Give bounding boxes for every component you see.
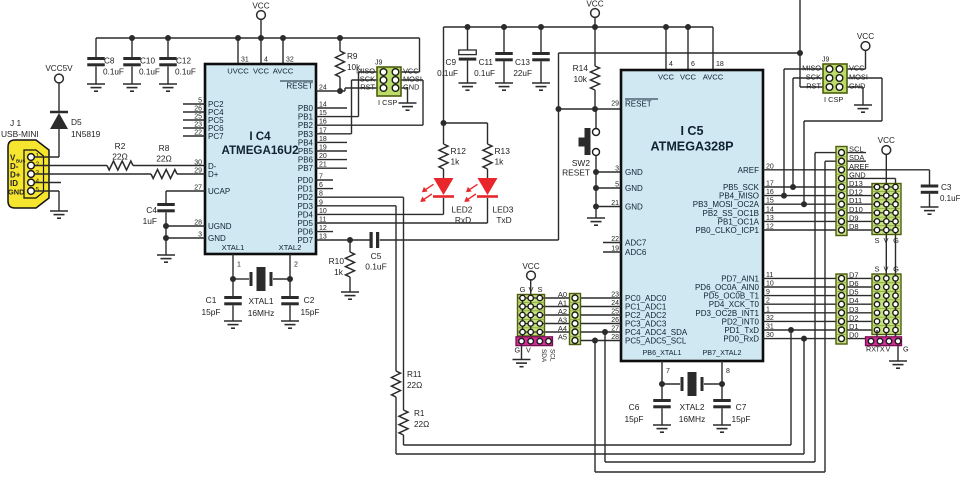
svg-text:3: 3 xyxy=(36,170,40,177)
svg-text:C10: C10 xyxy=(140,57,155,66)
svg-text:S: S xyxy=(874,265,879,274)
svg-text:C11: C11 xyxy=(479,58,494,67)
svg-text:G: G xyxy=(903,345,909,354)
svg-text:RxD: RxD xyxy=(455,215,471,225)
svg-text:R9: R9 xyxy=(347,52,358,61)
svg-text:2: 2 xyxy=(294,262,298,269)
svg-text:16MHz: 16MHz xyxy=(248,308,275,318)
svg-text:R13: R13 xyxy=(495,146,511,156)
svg-text:0.1uF: 0.1uF xyxy=(139,68,160,77)
svg-text:16MHz: 16MHz xyxy=(679,414,706,424)
svg-text:XTAL1: XTAL1 xyxy=(222,243,245,252)
svg-text:RESET: RESET xyxy=(562,168,590,178)
svg-text:R11: R11 xyxy=(407,370,422,379)
svg-text:GND: GND xyxy=(208,234,226,243)
svg-text:PB6_XTAL1: PB6_XTAL1 xyxy=(642,348,681,357)
svg-text:15pF: 15pF xyxy=(731,414,750,424)
svg-text:4: 4 xyxy=(669,61,673,68)
svg-text:V: V xyxy=(883,265,888,274)
svg-text:31: 31 xyxy=(241,57,249,64)
svg-text:15pF: 15pF xyxy=(201,307,220,317)
svg-text:A5: A5 xyxy=(558,333,567,342)
svg-text:1uF: 1uF xyxy=(143,216,157,226)
svg-text:D0: D0 xyxy=(849,331,859,340)
svg-text:S: S xyxy=(537,285,542,294)
svg-text:VCC: VCC xyxy=(658,73,675,82)
svg-text:VCC5V: VCC5V xyxy=(45,64,73,73)
svg-text:4: 4 xyxy=(264,57,268,64)
svg-text:J9: J9 xyxy=(822,57,830,64)
svg-text:C13: C13 xyxy=(515,58,530,67)
svg-text:0.1uF: 0.1uF xyxy=(940,194,960,203)
svg-text:V: V xyxy=(526,346,531,355)
svg-text:SDA: SDA xyxy=(540,349,547,363)
svg-text:RST: RST xyxy=(360,83,375,92)
svg-text:0.1uF: 0.1uF xyxy=(474,69,495,78)
svg-text:ATMEGA328P: ATMEGA328P xyxy=(650,140,733,154)
svg-text:RESET: RESET xyxy=(625,100,652,109)
svg-text:G: G xyxy=(515,346,521,355)
svg-text:VCC: VCC xyxy=(878,136,895,145)
svg-text:25: 25 xyxy=(194,114,202,121)
svg-text:22Ω: 22Ω xyxy=(407,381,422,390)
svg-text:3: 3 xyxy=(615,166,619,173)
svg-text:C4: C4 xyxy=(146,205,157,215)
svg-text:LED3: LED3 xyxy=(493,205,514,215)
svg-text:22Ω: 22Ω xyxy=(414,420,429,429)
svg-text:R1: R1 xyxy=(414,409,425,418)
svg-text:R14: R14 xyxy=(573,63,589,73)
svg-text:C7: C7 xyxy=(736,402,747,412)
svg-text:C5: C5 xyxy=(371,251,382,261)
svg-text:C6: C6 xyxy=(629,402,640,412)
svg-text:I C4: I C4 xyxy=(249,130,271,143)
svg-text:S: S xyxy=(874,236,879,245)
svg-text:ATMEGA16U2: ATMEGA16U2 xyxy=(221,144,298,157)
svg-text:1: 1 xyxy=(36,153,40,160)
svg-text:UCAP: UCAP xyxy=(208,187,230,196)
svg-text:VCC: VCC xyxy=(253,67,270,76)
svg-text:1N5819: 1N5819 xyxy=(71,129,101,139)
svg-text:VCC: VCC xyxy=(586,0,603,9)
svg-text:C12: C12 xyxy=(176,57,191,66)
svg-text:MISO: MISO xyxy=(802,64,821,73)
svg-text:6: 6 xyxy=(691,61,695,68)
svg-text:VCC: VCC xyxy=(252,2,269,11)
svg-text:0.1uF: 0.1uF xyxy=(175,68,196,77)
svg-text:22: 22 xyxy=(611,236,619,243)
svg-text:PB0_CLKO_ICP1: PB0_CLKO_ICP1 xyxy=(695,226,759,235)
svg-text:VCC: VCC xyxy=(857,32,874,41)
svg-text:AREF: AREF xyxy=(738,166,759,175)
svg-text:G: G xyxy=(520,285,526,294)
svg-text:5: 5 xyxy=(36,187,40,194)
svg-text:SCK: SCK xyxy=(806,73,821,82)
svg-text:J9: J9 xyxy=(375,60,383,67)
svg-text:ADC6: ADC6 xyxy=(625,248,647,257)
svg-text:GND: GND xyxy=(625,168,643,177)
svg-text:4: 4 xyxy=(36,178,40,185)
svg-text:PD0_RxD: PD0_RxD xyxy=(723,335,759,344)
svg-text:LED2: LED2 xyxy=(452,205,473,215)
svg-text:UVCC: UVCC xyxy=(227,67,249,76)
svg-text:32: 32 xyxy=(286,57,294,64)
svg-text:22Ω: 22Ω xyxy=(156,154,172,164)
svg-text:C8: C8 xyxy=(104,57,115,66)
svg-text:V: V xyxy=(886,345,891,354)
svg-text:15pF: 15pF xyxy=(624,414,643,424)
svg-text:18: 18 xyxy=(716,61,724,68)
svg-text:VCC: VCC xyxy=(522,262,539,271)
svg-text:C2: C2 xyxy=(304,295,315,305)
svg-text:21: 21 xyxy=(611,200,619,207)
svg-text:7: 7 xyxy=(666,368,670,375)
svg-text:D+: D+ xyxy=(208,170,219,179)
svg-text:PB7: PB7 xyxy=(298,164,314,173)
svg-text:R8: R8 xyxy=(159,143,170,153)
svg-text:V: V xyxy=(883,236,888,245)
svg-text:23: 23 xyxy=(194,122,202,129)
svg-text:5: 5 xyxy=(198,98,202,105)
svg-text:1k: 1k xyxy=(451,157,461,167)
svg-text:22Ω: 22Ω xyxy=(112,152,128,162)
svg-text:8: 8 xyxy=(726,368,730,375)
svg-text:2: 2 xyxy=(36,161,40,168)
svg-text:26: 26 xyxy=(194,106,202,113)
svg-text:GND: GND xyxy=(625,203,643,212)
svg-text:TxD: TxD xyxy=(496,215,511,225)
svg-text:VCC: VCC xyxy=(680,73,697,82)
svg-text:XTAL1: XTAL1 xyxy=(249,296,274,306)
svg-text:USB-MINI: USB-MINI xyxy=(1,129,39,139)
svg-text:22uF: 22uF xyxy=(513,69,532,78)
svg-text:5: 5 xyxy=(615,182,619,189)
svg-text:PD7: PD7 xyxy=(297,236,313,245)
svg-text:R2: R2 xyxy=(115,141,126,151)
svg-text:XTAL2: XTAL2 xyxy=(680,402,705,412)
svg-text:AVCC: AVCC xyxy=(273,67,294,76)
svg-text:D5: D5 xyxy=(71,117,82,127)
svg-text:VCC: VCC xyxy=(849,64,865,73)
svg-text:I CSP: I CSP xyxy=(824,95,843,104)
svg-text:29: 29 xyxy=(611,101,619,108)
svg-text:1k: 1k xyxy=(495,157,505,167)
svg-text:PB7_XTAL2: PB7_XTAL2 xyxy=(702,348,741,357)
svg-text:0.1uF: 0.1uF xyxy=(103,68,124,77)
svg-text:C1: C1 xyxy=(206,295,217,305)
svg-text:GND: GND xyxy=(403,83,419,92)
svg-text:22: 22 xyxy=(194,130,202,137)
svg-text:PC5_ADC5_SCL: PC5_ADC5_SCL xyxy=(625,337,687,346)
svg-text:1: 1 xyxy=(237,262,241,269)
svg-text:19: 19 xyxy=(611,246,619,253)
svg-text:R10: R10 xyxy=(329,256,345,266)
svg-text:PC7: PC7 xyxy=(208,132,224,141)
svg-text:0.1uF: 0.1uF xyxy=(437,69,458,78)
svg-text:C9: C9 xyxy=(446,58,457,67)
svg-text:V: V xyxy=(528,285,533,294)
svg-text:1k: 1k xyxy=(334,267,344,277)
svg-text:GND: GND xyxy=(849,82,865,91)
svg-text:RESET: RESET xyxy=(286,82,313,91)
svg-text:TX: TX xyxy=(876,345,885,354)
svg-text:G: G xyxy=(893,236,899,245)
svg-text:G: G xyxy=(893,265,899,274)
svg-text:I CSP: I CSP xyxy=(378,98,397,107)
svg-text:R12: R12 xyxy=(451,146,467,156)
svg-text:RST: RST xyxy=(806,82,821,91)
svg-text:0.1uF: 0.1uF xyxy=(365,262,386,272)
svg-text:10k: 10k xyxy=(573,74,587,84)
svg-text:GND: GND xyxy=(625,184,643,193)
svg-text:C3: C3 xyxy=(941,183,952,192)
svg-text:D8: D8 xyxy=(849,222,859,231)
svg-text:AVCC: AVCC xyxy=(703,73,724,82)
svg-text:J 1: J 1 xyxy=(10,118,22,128)
svg-text:I C5: I C5 xyxy=(680,124,703,138)
svg-text:MOSI: MOSI xyxy=(849,73,868,82)
svg-text:SCL: SCL xyxy=(549,349,556,362)
svg-text:ADC7: ADC7 xyxy=(625,239,647,248)
svg-text:UGND: UGND xyxy=(208,222,232,231)
svg-text:GND: GND xyxy=(8,188,25,197)
svg-text:15pF: 15pF xyxy=(300,307,319,317)
svg-text:SW2: SW2 xyxy=(572,158,590,168)
